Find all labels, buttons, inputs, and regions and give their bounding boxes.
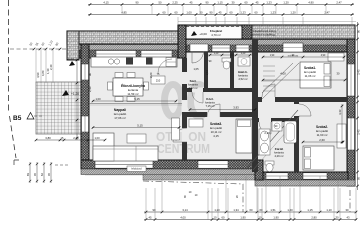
label drain box [127, 166, 146, 172]
svg-text:Fürdő: Fürdő [275, 147, 284, 151]
svg-text:1,00: 1,00 [95, 97, 101, 101]
kitchen-living divider line [89, 103, 182, 105]
extension lines upper-left [35, 49, 37, 83]
sofa back line [93, 148, 158, 150]
opening living to hall [182, 100, 188, 112]
svg-text:90: 90 [153, 208, 156, 212]
svg-text:60: 60 [222, 216, 225, 220]
window szoba3 bottom [198, 161, 228, 168]
step wall between bottom sections [255, 160, 263, 180]
insulation strip bottom-right [255, 180, 355, 186]
entrance door opening [190, 44, 208, 52]
door gap szoba3 [207, 112, 220, 118]
svg-text:50: 50 [159, 0, 162, 4]
svg-text:60: 60 [250, 208, 253, 212]
dimension chain top row2 [88, 14, 354, 16]
attic stair diagonals [262, 63, 299, 99]
svg-text:45: 45 [256, 0, 259, 4]
window szoba2 right [348, 118, 355, 150]
outer wall left [81, 44, 89, 161]
svg-text:62: 62 [40, 173, 44, 176]
svg-text:4,00: 4,00 [280, 72, 286, 76]
interior floor base [85, 40, 350, 176]
svg-text:60: 60 [175, 10, 178, 14]
svg-text:2,52 m²: 2,52 m² [238, 77, 247, 81]
svg-text:45: 45 [190, 0, 193, 4]
svg-text:10: 10 [259, 216, 262, 220]
door gap szoba2 [294, 104, 300, 116]
tv cabinet [172, 118, 180, 140]
dimension chain right edge [357, 22, 359, 190]
svg-text:1,34: 1,34 [233, 208, 239, 212]
coffee table [127, 134, 146, 143]
sofa chaise [93, 133, 114, 161]
svg-text:1,10: 1,10 [47, 39, 53, 46]
svg-text:30: 30 [346, 208, 349, 212]
wall szoba1 bottom horizontal [258, 97, 347, 102]
watermark OC logo [165, 85, 182, 117]
svg-text:11,60 m²: 11,60 m² [317, 133, 328, 137]
terrace tiled deck [36, 82, 88, 134]
window kitchen left [82, 64, 89, 80]
dimension chain top row1 [88, 4, 354, 6]
svg-text:3,43: 3,43 [357, 69, 360, 75]
door gap szoba3 west [182, 128, 188, 142]
svg-text:4,29 m²: 4,29 m² [274, 154, 283, 158]
outer wall top-left (kitchen) [79, 44, 186, 58]
svg-text:kerámia: kerámia [205, 101, 215, 105]
svg-text:1,20: 1,20 [214, 53, 219, 55]
svg-text:1,90: 1,90 [270, 55, 275, 57]
kitchen door label 75/210 [151, 76, 165, 84]
kitchen sink [108, 59, 113, 64]
svg-text:1,51: 1,51 [270, 208, 276, 212]
paving strip below living [143, 175, 263, 181]
wall center|szoba1 vertical [252, 39, 258, 118]
dining table [113, 78, 143, 96]
svg-text:hulladéktároló edény: hulladéktároló edény [252, 29, 277, 33]
inner dim kozl [189, 109, 256, 111]
window hazt [236, 45, 249, 52]
svg-text:60: 60 [260, 208, 263, 212]
svg-text:1,00: 1,00 [94, 136, 100, 140]
brick veneer band top-right [178, 25, 355, 39]
svg-text:45: 45 [219, 10, 222, 14]
svg-text:50: 50 [28, 41, 33, 46]
terrace level flag +1,20 [62, 90, 69, 96]
svg-text:90: 90 [54, 41, 59, 46]
svg-text:20: 20 [236, 195, 239, 198]
svg-text:Szél.: Szél. [190, 79, 197, 83]
dim row below terrace [36, 139, 105, 141]
svg-text:10: 10 [214, 216, 217, 220]
svg-text:2,12 m²: 2,12 m² [188, 86, 197, 90]
wall bath top horizontal [258, 118, 294, 122]
wall szoba3|bath vertical [252, 117, 258, 172]
svg-text:1,20: 1,20 [214, 208, 220, 212]
door gap bath [259, 118, 271, 123]
svg-text:1,20: 1,20 [241, 53, 246, 55]
bathtub [284, 121, 297, 143]
svg-text:2,10: 2,10 [205, 69, 209, 75]
svg-text:5,15: 5,15 [137, 124, 143, 128]
svg-text:+0,00: +0,00 [66, 57, 74, 61]
svg-text:1,20: 1,20 [290, 10, 296, 14]
svg-text:1,20: 1,20 [283, 0, 289, 4]
svg-text:90: 90 [136, 0, 139, 4]
svg-text:kerámia: kerámia [274, 151, 284, 155]
svg-text:+0,00: +0,00 [199, 32, 207, 36]
kitchen hob dark [126, 58, 133, 65]
dining chairs bottom [115, 97, 123, 102]
kitchen fridge [166, 58, 176, 67]
inner dim szoba1 width [262, 79, 346, 81]
svg-text:45: 45 [47, 173, 51, 176]
svg-text:4,00: 4,00 [180, 216, 186, 220]
wall center horizontal (hall top) [187, 88, 256, 92]
bath sink 1 [261, 131, 269, 141]
svg-text:90: 90 [210, 10, 213, 14]
svg-text:1,05: 1,05 [193, 67, 199, 71]
svg-text:2,47: 2,47 [324, 10, 330, 14]
left inner vertical dim line [76, 58, 78, 140]
svg-text:60: 60 [230, 10, 233, 14]
svg-text:60: 60 [255, 10, 258, 14]
inner dim living 515 [92, 127, 180, 129]
porch pier [242, 25, 252, 39]
szoba2 bed [303, 146, 334, 170]
sofa main [93, 146, 158, 161]
window szoba2 bottom [303, 173, 327, 179]
entrance door swing [192, 52, 204, 64]
kitchen window 2 [141, 51, 172, 58]
svg-text:1,23: 1,23 [270, 10, 276, 14]
kitchen appliance dark [146, 58, 153, 65]
svg-text:4,90: 4,90 [308, 0, 314, 4]
svg-text:Közl.: Közl. [206, 97, 213, 101]
door gap szel-hall [192, 88, 203, 93]
svg-text:2,47: 2,47 [336, 0, 342, 4]
svg-text:5,15: 5,15 [134, 97, 140, 101]
svg-text:kerámia: kerámia [238, 74, 248, 78]
svg-text:2,20: 2,20 [149, 72, 153, 78]
svg-text:2,40: 2,40 [49, 64, 53, 70]
svg-text:11,06 m²: 11,06 m² [305, 74, 316, 78]
washing machine [272, 121, 282, 131]
door gap szoba1 [262, 97, 275, 103]
svg-text:1,10: 1,10 [326, 208, 332, 212]
level flag +0,00 left [69, 61, 75, 66]
svg-text:6,80: 6,80 [41, 70, 45, 76]
extension lines top [177, 17, 179, 25]
dimension chain bottom row1 [144, 211, 357, 213]
insulation strip bottom-left [81, 169, 263, 175]
inner dim kitchen 515 [92, 100, 177, 102]
svg-text:3,93: 3,93 [233, 106, 239, 110]
svg-text:4,15: 4,15 [213, 134, 219, 138]
svg-text:1,23: 1,23 [266, 0, 272, 4]
dimension chain bottom row2 [144, 219, 357, 221]
svg-text:1,23: 1,23 [240, 10, 246, 14]
svg-text:83: 83 [26, 173, 30, 176]
svg-text:B5: B5 [13, 115, 22, 122]
svg-text:Házt.h.: Házt.h. [238, 70, 248, 74]
svg-text:szelektív hulladékgy.: szelektív hulladékgy. [252, 33, 276, 37]
svg-text:3,80: 3,80 [45, 136, 51, 140]
wall hall|szoba3 horizontal [182, 112, 258, 117]
window szel [212, 45, 230, 52]
property boundary dashed [8, 0, 10, 112]
inner dim row center rooms [208, 54, 252, 56]
svg-text:7,15 m²: 7,15 m² [205, 104, 214, 108]
porch level flag +0,00 [191, 31, 197, 36]
porch side wall [178, 25, 186, 58]
wall living|hall vertical [182, 58, 187, 160]
szoba1 bed [300, 62, 331, 88]
window szoba1 right [348, 64, 355, 96]
roof overhang dash-dot [143, 181, 243, 212]
svg-text:10: 10 [195, 194, 198, 197]
szoba3 bed [236, 119, 252, 153]
window living left [82, 116, 89, 132]
brick veneer band top-left [67, 31, 178, 44]
insulation strip top-right wall [186, 40, 348, 46]
szoba3 pillow [238, 120, 251, 127]
svg-text:45: 45 [149, 216, 152, 220]
outer wall bottom-left [81, 160, 263, 169]
brick veneer wrap left corner [67, 31, 79, 60]
svg-text:1,15: 1,15 [217, 0, 223, 4]
svg-text:2,60: 2,60 [319, 138, 325, 142]
bath wc [265, 161, 274, 165]
svg-text:2,80: 2,80 [311, 216, 317, 220]
porch canopy dashed edge [186, 26, 242, 28]
svg-text:95: 95 [357, 176, 360, 180]
dining chair left [108, 82, 113, 90]
svg-text:60: 60 [40, 41, 45, 46]
svg-text:55: 55 [34, 41, 39, 46]
dashed dim line upper-left [10, 48, 66, 50]
svg-text:30: 30 [232, 0, 235, 4]
terrace door living [95, 161, 153, 168]
svg-text:30: 30 [336, 216, 339, 220]
svg-text:3,14: 3,14 [182, 208, 188, 212]
svg-text:11,59 m²: 11,59 m² [127, 92, 138, 96]
property boundary dashed lower [10, 116, 17, 158]
szoba1 wardrobe [328, 53, 344, 61]
svg-text:+1,20: +1,20 [71, 92, 79, 96]
dining chairs top [115, 73, 123, 78]
window furdo bottom [266, 173, 288, 179]
svg-text:45: 45 [33, 173, 37, 176]
szoba1 wall niche wardrobe [283, 43, 303, 52]
door gap kitchen-szel [182, 72, 188, 84]
bath sink 2 [261, 143, 269, 153]
hazt boiler [238, 57, 250, 66]
svg-text:4,70 m²: 4,70 m² [211, 33, 221, 37]
svg-text:1,00: 1,00 [186, 10, 192, 14]
svg-text:lefolyócső: lefolyócső [131, 168, 142, 171]
inner dim row szoba1 [262, 56, 345, 58]
roof overhang right dashed [349, 190, 351, 212]
svg-text:3,43: 3,43 [357, 129, 360, 135]
svg-text:2,25: 2,25 [172, 0, 178, 4]
roofline top-right [178, 21, 356, 23]
wall szel|wc vertical [204, 52, 208, 90]
svg-text:90: 90 [357, 29, 360, 33]
svg-text:90: 90 [88, 72, 92, 76]
dining chair right [144, 82, 149, 90]
svg-text:1,90: 1,90 [273, 216, 279, 220]
kitchen window 1 [96, 51, 136, 58]
extension lines bottom [145, 188, 147, 220]
svg-text:4,43: 4,43 [338, 109, 342, 115]
svg-text:4,85: 4,85 [121, 10, 127, 14]
wall bath|szoba2 vertical [294, 102, 299, 172]
svg-text:43: 43 [347, 216, 350, 220]
svg-text:2,60: 2,60 [73, 136, 79, 140]
svg-text:10: 10 [189, 191, 192, 194]
wall wc|hazt vertical [230, 52, 234, 90]
szoba2 wardrobe [337, 124, 346, 148]
szoba3 dresser [189, 119, 203, 127]
svg-text:2,10: 2,10 [264, 131, 270, 135]
bath sinks counter [259, 129, 270, 155]
svg-text:kerámia: kerámia [188, 83, 198, 87]
kitchen counter [91, 57, 177, 67]
svg-text:4,15: 4,15 [103, 0, 109, 4]
svg-text:60: 60 [163, 10, 166, 14]
svg-text:2,40: 2,40 [88, 86, 92, 92]
svg-text:90: 90 [184, 195, 187, 198]
svg-text:1,20: 1,20 [287, 208, 293, 212]
wc toilet [222, 58, 231, 62]
outer wall bottom-right [255, 172, 348, 180]
svg-text:210: 210 [156, 79, 161, 83]
svg-text:17,06 m²: 17,06 m² [114, 116, 125, 120]
insulation strip top-left wall [79, 45, 186, 51]
svg-text:4,90: 4,90 [36, 72, 40, 78]
szoba1 pillows [324, 64, 330, 75]
svg-text:15: 15 [61, 136, 64, 140]
svg-text:4,90: 4,90 [321, 55, 326, 57]
svg-text:60: 60 [245, 0, 248, 4]
mini dim chain bottom-left [14, 160, 19, 165]
svg-text:1,15: 1,15 [307, 208, 313, 212]
szoba2 pillows [305, 148, 311, 158]
inner dim szoba2 width [302, 141, 344, 143]
outer wall right [347, 39, 355, 186]
roof slope diagonal bath [247, 110, 298, 168]
svg-text:1,90: 1,90 [240, 216, 246, 220]
svg-text:90: 90 [206, 0, 209, 4]
outer wall top-right (bedrooms) [186, 39, 348, 52]
entrance porch recess [186, 26, 242, 39]
kitchen door swing [158, 59, 172, 73]
